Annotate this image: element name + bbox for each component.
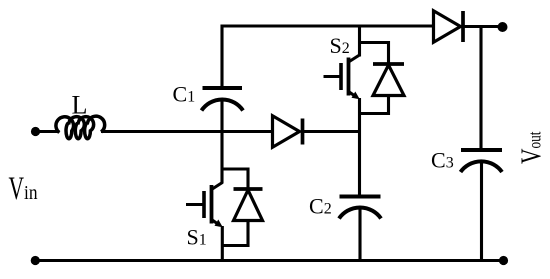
collector diagonal (349, 55, 360, 62)
emitter diagonal with arrow (212, 220, 221, 226)
node Vin input terminal (31, 127, 40, 136)
collector diagonal (212, 183, 223, 190)
node output terminal top (498, 22, 508, 32)
wire bottom rail (35, 259, 504, 262)
wire D2 to output terminal (464, 25, 500, 28)
svg-text:C3: C3 (431, 148, 454, 173)
capacitor C2 (339, 197, 381, 219)
diode D1 (middle) (273, 116, 303, 147)
svg-text:S1: S1 (187, 225, 207, 250)
transistor S2 (IGBT) (324, 55, 360, 99)
wire inductor to diode D1 (101, 130, 273, 133)
antiparallel diode of S2 (360, 43, 405, 114)
svg-text:C1: C1 (173, 82, 196, 107)
channel bar (210, 185, 214, 224)
svg-text:C2: C2 (309, 194, 332, 219)
wire output branch down to C3 (479, 27, 482, 151)
diode D2 (top) (434, 11, 464, 42)
node bottom left terminal (31, 256, 40, 265)
wire S1 emitter to bottom rail (221, 226, 224, 261)
transistor S1 (IGBT) (186, 183, 223, 228)
capacitor C1 (202, 88, 244, 111)
wire C1 to S1 collector (220, 101, 223, 184)
wire top rail (222, 26, 434, 88)
inductor L (56, 116, 105, 139)
gate bar (202, 191, 206, 218)
svg-text:S2: S2 (330, 33, 350, 58)
svg-text:L: L (72, 91, 88, 120)
wire S2 emitter down to C2 (358, 98, 361, 197)
wire D1 to S2 node (303, 130, 360, 133)
wire input to inductor (36, 130, 60, 133)
emitter diagonal with arrow (349, 92, 358, 98)
node bottom right terminal (499, 256, 508, 265)
channel bar (347, 58, 351, 96)
svg-text:Vout: Vout (516, 132, 548, 165)
svg-text:Vin: Vin (9, 171, 38, 207)
gate lead (186, 203, 204, 206)
wire S2 node top (358, 26, 361, 57)
capacitor C3 (461, 150, 503, 172)
gate lead (324, 75, 342, 78)
wire C2 to bottom rail (358, 208, 361, 261)
antiparallel diode of S1 (222, 169, 262, 246)
wire C3 to bottom rail (480, 162, 483, 261)
gate bar (339, 63, 343, 90)
